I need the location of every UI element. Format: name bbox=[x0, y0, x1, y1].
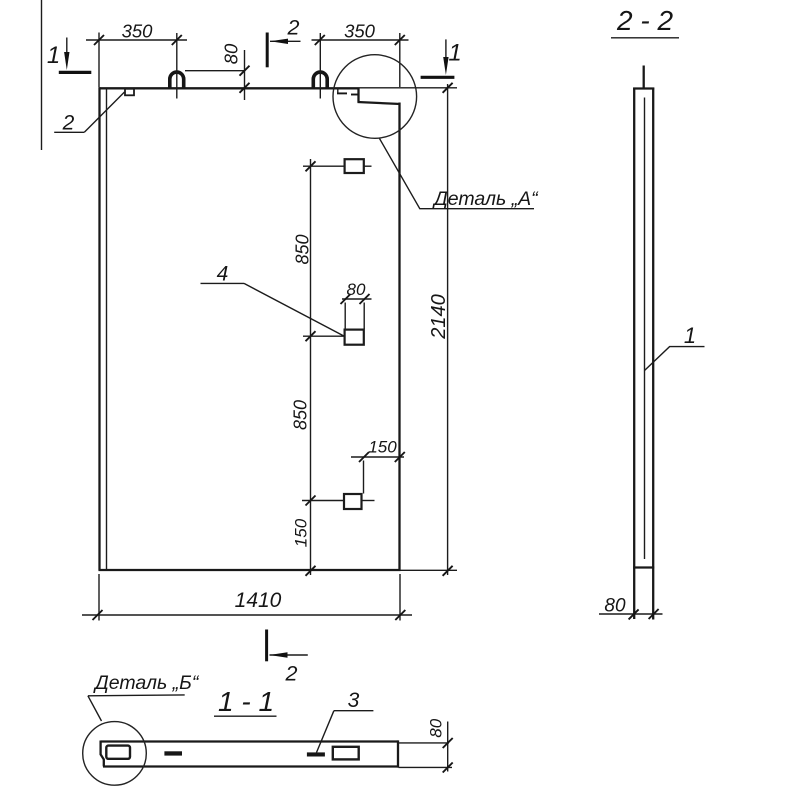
svg-text:850: 850 bbox=[293, 234, 313, 264]
svg-text:Деталь „Б“: Деталь „Б“ bbox=[93, 672, 200, 694]
svg-text:1: 1 bbox=[448, 40, 461, 67]
svg-text:2: 2 bbox=[62, 112, 75, 135]
svg-text:80: 80 bbox=[347, 280, 366, 299]
svg-text:1: 1 bbox=[47, 42, 60, 69]
svg-text:80: 80 bbox=[427, 718, 446, 737]
svg-text:2140: 2140 bbox=[428, 294, 450, 340]
svg-text:3: 3 bbox=[348, 689, 360, 712]
svg-text:4: 4 bbox=[217, 263, 229, 286]
svg-text:150: 150 bbox=[292, 518, 311, 547]
svg-text:350: 350 bbox=[122, 21, 154, 42]
svg-text:150: 150 bbox=[368, 438, 397, 457]
svg-text:1 - 1: 1 - 1 bbox=[218, 686, 274, 717]
svg-text:2: 2 bbox=[285, 662, 298, 686]
svg-text:1: 1 bbox=[684, 323, 696, 348]
svg-text:2 - 2: 2 - 2 bbox=[616, 5, 673, 36]
svg-text:350: 350 bbox=[344, 21, 376, 42]
svg-text:1410: 1410 bbox=[235, 589, 282, 612]
svg-text:2: 2 bbox=[287, 16, 300, 40]
svg-text:80: 80 bbox=[221, 43, 242, 64]
svg-text:850: 850 bbox=[291, 400, 311, 430]
svg-text:80: 80 bbox=[604, 596, 626, 617]
